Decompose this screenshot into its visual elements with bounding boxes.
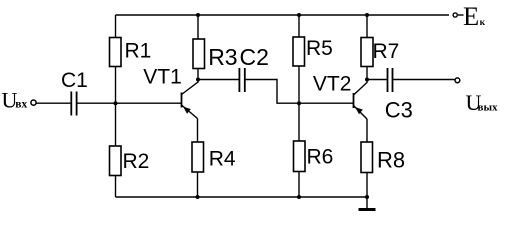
svg-text:C1: C1 [61,69,88,92]
svg-text:к: к [480,18,486,28]
svg-text:R1: R1 [125,40,152,63]
svg-text:VT2: VT2 [313,72,352,95]
svg-text:R3: R3 [208,44,237,70]
svg-text:вх: вх [15,98,27,110]
svg-text:C3: C3 [385,98,413,123]
svg-text:R2: R2 [123,150,150,173]
svg-text:вых: вых [478,102,499,114]
svg-text:R7: R7 [373,40,400,63]
svg-text:R6: R6 [307,146,334,169]
svg-text:C2: C2 [240,44,269,70]
svg-text:VT1: VT1 [143,65,182,88]
svg-text:R8: R8 [377,148,405,173]
svg-text:E: E [463,1,479,31]
svg-text:R5: R5 [306,37,333,60]
svg-text:R4: R4 [209,147,236,170]
